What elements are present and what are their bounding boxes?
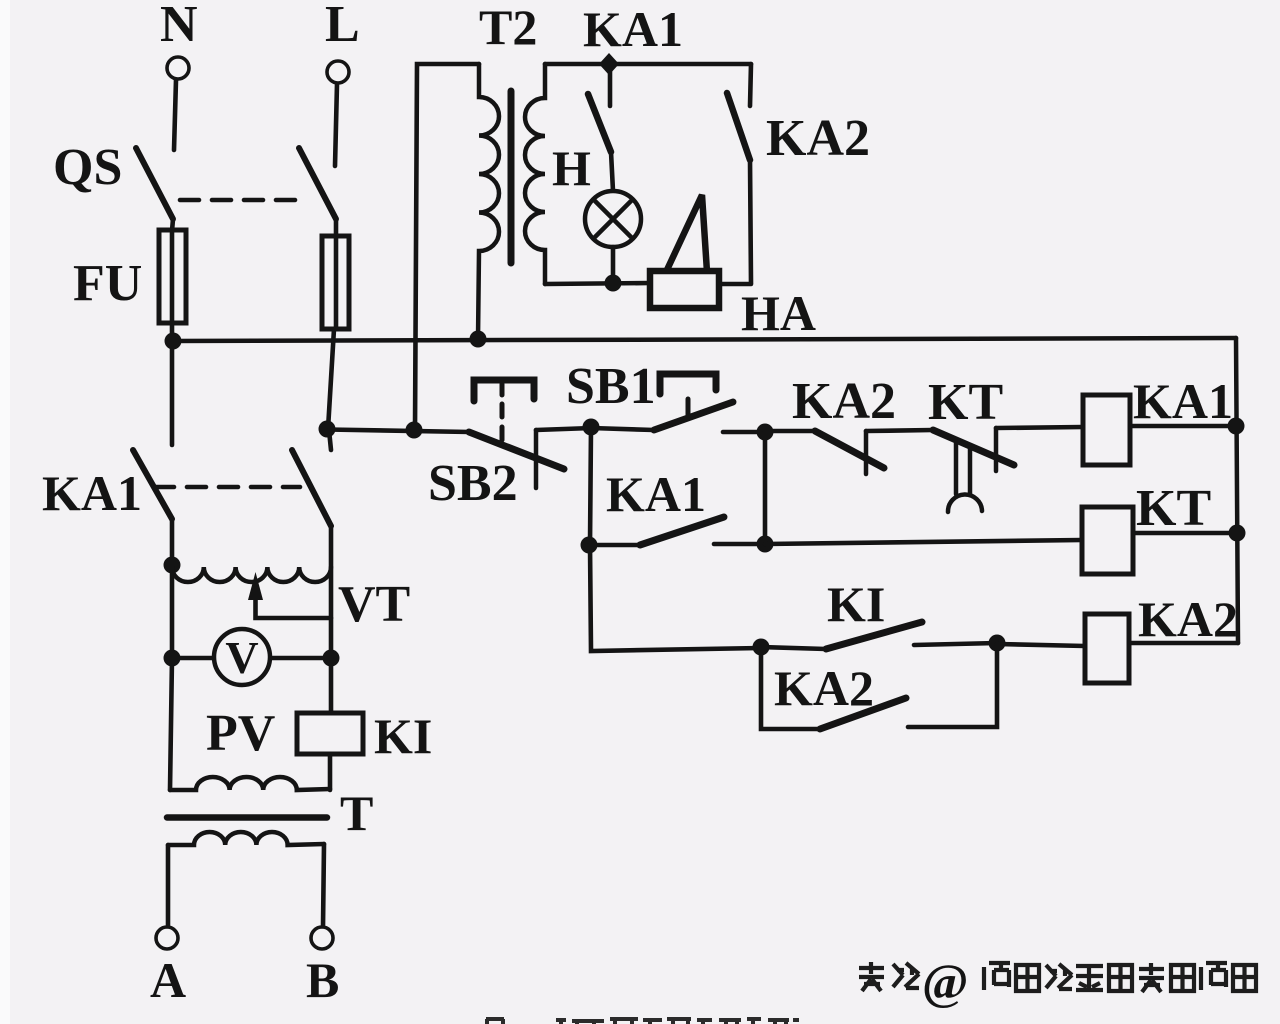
transformer T2 core <box>508 91 515 263</box>
contact KA2 bell branch <box>727 64 870 283</box>
svg-text:KA1: KA1 <box>583 1 683 57</box>
svg-text:V: V <box>225 632 258 683</box>
wire secondary top <box>545 62 751 67</box>
svg-text:KI: KI <box>374 708 432 764</box>
wire left rail V to T <box>170 658 172 790</box>
wire KA2 coil to rail corner <box>1129 641 1238 646</box>
fuse FU 1 <box>159 230 186 323</box>
caption remnant bottom <box>486 1019 799 1024</box>
wire main N bus <box>172 338 1236 341</box>
contact KT NC delay lines <box>956 441 970 494</box>
node junction rail KT <box>1229 525 1246 542</box>
svg-text:T2: T2 <box>479 0 537 55</box>
svg-text:KA2: KA2 <box>766 110 870 167</box>
wire QS to fuse 1 <box>172 219 173 231</box>
svg-text:KT: KT <box>928 374 1003 431</box>
svg-text:KA2: KA2 <box>792 373 896 430</box>
wire T secondary right lead <box>323 844 324 927</box>
node junction T2 bottom on bus <box>470 331 487 348</box>
wire row2 to KA1 pole2 <box>329 430 331 450</box>
wire KA1 holding right lead <box>714 542 766 547</box>
pushbutton SB2 right terminal <box>534 430 539 488</box>
wire KA2 NC to KT NC <box>866 430 933 431</box>
lamp H <box>585 191 641 247</box>
node junction KT row right <box>757 536 774 553</box>
pushbutton SB2 stem <box>500 384 505 442</box>
svg-text:PV: PV <box>206 705 275 762</box>
wire SB2 to SB1 node <box>536 428 592 430</box>
wire left rail x591 upper <box>590 427 591 545</box>
node junction rail KA1 <box>1228 418 1245 435</box>
wire blade to lamp <box>611 152 613 191</box>
wire bell to KA2 branch <box>719 282 751 287</box>
svg-text:KT: KT <box>1136 480 1211 537</box>
pushbutton SB2 cap <box>474 380 534 401</box>
node junction KI row left <box>753 639 770 656</box>
svg-text:SB2: SB2 <box>428 455 518 512</box>
wire fuse1 to bus <box>170 323 175 341</box>
svg-text:@: @ <box>922 953 969 1009</box>
contact KA1 lamp blade <box>588 94 611 152</box>
wire KT NC to KA1 coil <box>996 427 1083 428</box>
svg-text:H: H <box>552 140 591 196</box>
svg-text:KA1: KA1 <box>1133 373 1233 429</box>
transformer T core <box>167 814 327 821</box>
svg-text:HA: HA <box>741 285 816 341</box>
svg-text:A: A <box>150 952 186 1008</box>
transformer T primary winding <box>170 777 330 790</box>
coil KI <box>297 713 363 754</box>
node junction SB1 left <box>583 419 600 436</box>
node junction VT left <box>164 557 181 574</box>
node B terminal <box>306 927 339 1008</box>
wire right rail x765 <box>763 432 768 544</box>
contact KA1 switch linkage dashed <box>155 485 300 490</box>
meter PV <box>172 629 331 685</box>
wire row2 L rail <box>327 430 470 433</box>
wire V right to KI coil <box>329 658 334 713</box>
node junction lamp bottom <box>605 275 622 292</box>
wire N lead down <box>174 80 176 150</box>
transformer T2 primary winding <box>478 64 499 339</box>
autotransformer VT tap arrow <box>248 572 331 618</box>
node junction V left <box>164 650 181 667</box>
svg-text:KI: KI <box>827 576 885 632</box>
contact KI blade <box>826 622 922 649</box>
fuse FU 2 <box>322 236 349 329</box>
node L terminal <box>325 0 360 83</box>
pushbutton SB1 blade <box>654 402 733 430</box>
wire T secondary left lead <box>166 845 171 927</box>
wire KT coil to rail <box>1133 531 1237 536</box>
svg-text:KA2: KA2 <box>1138 591 1238 647</box>
wire lamp to bottom <box>611 247 616 284</box>
node junction KT row left <box>581 537 598 554</box>
transformer T2 primary top lead <box>415 64 479 430</box>
switch QS pole 2 <box>299 148 336 219</box>
wire SB1 right lead <box>723 430 766 435</box>
node junction SB1 right <box>757 424 774 441</box>
svg-text:FU: FU <box>73 255 142 312</box>
node junction row2 fuse <box>319 421 336 438</box>
coil KA2 <box>1085 614 1129 683</box>
watermark <box>859 953 1256 1009</box>
contact KA2 NC terminal <box>864 431 869 474</box>
coil KT <box>1082 507 1133 574</box>
svg-text:QS: QS <box>53 139 122 196</box>
wire left rail VT to V <box>170 566 175 658</box>
wire pole2 to V right rail <box>329 526 334 658</box>
wire KI coil to T primary <box>328 754 333 790</box>
contact KA2 parallel branch <box>761 643 997 729</box>
transformer T secondary winding <box>168 832 324 845</box>
contact KA2 NC left lead <box>765 429 815 434</box>
wire N rail to KA1 switch <box>170 341 175 445</box>
node junction lamp branch top <box>599 53 619 75</box>
wire SB1 left lead <box>591 428 654 430</box>
svg-text:SB1: SB1 <box>566 358 656 415</box>
svg-text:T: T <box>340 785 373 841</box>
bell HA flag <box>666 195 707 272</box>
pushbutton SB2 blade <box>469 432 564 469</box>
wire right rail <box>1236 338 1238 643</box>
pushbutton SB1 stem <box>686 399 691 415</box>
pushbutton SB1 cap <box>660 374 716 394</box>
node junction bus left <box>165 333 182 350</box>
transformer T2 secondary winding <box>525 64 545 284</box>
wire KT row <box>765 540 1082 544</box>
wire pole1 to VT <box>170 519 175 566</box>
switch QS linkage dashed <box>180 198 308 203</box>
autotransformer VT winding <box>172 567 331 582</box>
wire QS to fuse 2 <box>334 219 339 237</box>
contact KT NC blade <box>933 430 1014 465</box>
wire left rail x591 lower <box>590 545 761 651</box>
node junction row2 T2 lead <box>406 422 423 439</box>
switch QS pole 1 <box>136 148 173 219</box>
contact KA1 switch pole 1 <box>133 450 172 519</box>
wire KI left lead <box>761 647 826 649</box>
wire KI right lead <box>914 643 997 645</box>
svg-text:KA2: KA2 <box>774 660 874 716</box>
wire KA1 coil to rail <box>1130 424 1236 429</box>
node N terminal <box>160 0 198 79</box>
contact KA1 holding left lead <box>589 543 640 548</box>
node A terminal <box>150 927 186 1008</box>
wire fuse2 down to row2 <box>328 329 334 429</box>
contact KT NC delay arc <box>948 495 982 512</box>
wire secondary bottom left <box>545 283 650 284</box>
node junction V right <box>323 650 340 667</box>
svg-text:N: N <box>160 0 198 53</box>
node junction KI row right <box>989 635 1006 652</box>
contact KT NC terminal <box>994 428 999 471</box>
svg-text:VT: VT <box>338 576 410 633</box>
contact KA2 NC blade <box>815 431 884 468</box>
coil KA1 <box>1083 395 1130 465</box>
svg-text:L: L <box>325 0 360 53</box>
contact KA1 switch pole 2 <box>292 450 331 526</box>
wire lamp branch upper <box>608 68 613 106</box>
wire L lead down <box>335 84 337 166</box>
contact KA1 holding blade <box>640 517 724 545</box>
wire KI row to KA2 coil <box>997 644 1085 646</box>
svg-text:KA1: KA1 <box>42 465 142 521</box>
svg-text:KA1: KA1 <box>606 466 706 522</box>
bell HA box <box>650 271 719 308</box>
svg-text:B: B <box>306 952 339 1008</box>
